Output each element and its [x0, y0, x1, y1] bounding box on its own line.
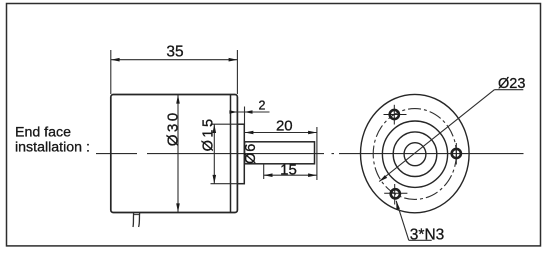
svg-text:2: 2 [259, 99, 266, 113]
svg-text:Ø6: Ø6 [243, 143, 259, 164]
svg-text:35: 35 [166, 43, 183, 60]
svg-text:installation :: installation : [15, 140, 90, 156]
svg-text:Ø15: Ø15 [201, 116, 217, 151]
svg-text:20: 20 [276, 117, 293, 134]
svg-text:15: 15 [280, 162, 297, 179]
svg-text:Ø30: Ø30 [164, 110, 181, 146]
svg-text:End face: End face [15, 125, 71, 141]
